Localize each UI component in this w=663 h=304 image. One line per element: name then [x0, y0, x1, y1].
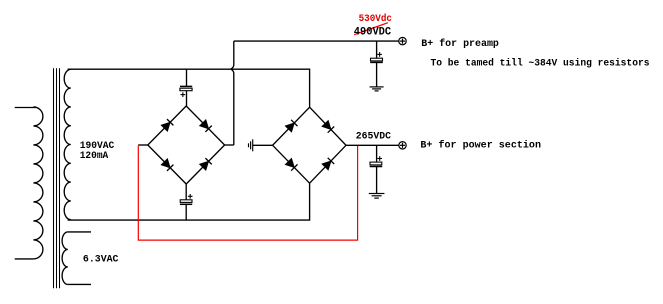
output terminal B+ preamp (circle plus) — [399, 37, 406, 44]
svg-text:530Vdc: 530Vdc — [359, 13, 392, 25]
wire: C2 to bottom rail — [185, 204, 187, 220]
ground symbol below C4 — [369, 194, 385, 199]
left bridge rectifier D1 diamond — [148, 106, 225, 184]
wire: C1 to left bridge top vertex — [186, 91, 188, 106]
transformer T1 primary winding — [15, 107, 43, 259]
wire: left bridge bottom vertex to C2 — [185, 184, 187, 200]
transformer T1 core — [54, 68, 60, 288]
transformer T1 secondary 190VAC winding — [64, 69, 71, 219]
red wire: left bridge AC node down, across, up to 265VDC rail — [138, 146, 357, 241]
wire: C3 to ground — [376, 62, 378, 87]
capacitor C1 negative plate (line) — [180, 85, 192, 87]
right bridge diode upper-left — [286, 120, 298, 132]
red strikethrough over 490VDC — [354, 23, 388, 35]
capacitor C4 plus sign — [377, 156, 382, 161]
output terminal B+ power (circle plus) — [399, 142, 406, 149]
right bridge diode upper-right — [323, 121, 335, 133]
capacitor C1 positive plate (hollow rect) — [180, 88, 192, 91]
transformer T1 secondary 6.3VAC winding — [62, 232, 91, 285]
capacitor C2 plus sign — [188, 194, 193, 199]
wire: left bridge left vertex stub — [138, 144, 148, 146]
wire: B+ preamp horizontal to output terminal — [234, 40, 399, 42]
svg-text:To be tamed till ~384V using r: To be tamed till ~384V using resistors — [431, 58, 650, 70]
wire: secondary top lead / AC top rail to right bridge top — [68, 69, 310, 107]
svg-text:6.3VAC: 6.3VAC — [83, 253, 119, 265]
right bridge diode lower-right — [323, 158, 335, 170]
capacitor C4 negative plate (line) — [370, 166, 383, 168]
svg-text:490VDC: 490VDC — [354, 26, 392, 38]
left bridge diode lower-right — [200, 158, 212, 170]
svg-text:B+ for preamp: B+ for preamp — [421, 38, 499, 50]
capacitor C2 negative plate (line) — [180, 203, 192, 205]
capacitor C4 positive plate (hollow rect) — [370, 162, 382, 165]
ground symbol below C3 — [370, 87, 384, 91]
left bridge diode upper-left — [162, 119, 174, 131]
capacitor C3 positive plate (hollow rect) — [371, 58, 383, 61]
wire: B+ preamp riser with hop over AC rail — [231, 41, 234, 145]
wire: right bridge left vertex to chassis ground — [253, 144, 273, 146]
svg-text:265VDC: 265VDC — [356, 130, 392, 142]
left bridge diode upper-right — [200, 120, 212, 132]
capacitor C3 (preamp filter) lead — [376, 41, 378, 58]
wire: left bridge right vertex stub to B+ riser — [225, 144, 234, 146]
left bridge diode lower-left — [162, 159, 174, 171]
right bridge rectifier D2 diamond — [273, 107, 346, 183]
capacitor C1 plus sign — [181, 92, 186, 97]
capacitor C1 (doubler cap, top) lead from AC rail — [186, 69, 188, 86]
right bridge diode lower-left — [286, 159, 298, 171]
wire: right bridge right vertex to B+ power terminal — [346, 144, 399, 146]
wire: C4 to ground — [376, 167, 378, 194]
svg-text:B+ for power section: B+ for power section — [420, 140, 541, 152]
wire: secondary bottom lead / bottom rail to right bridge bottom — [68, 183, 310, 220]
capacitor C2 positive plate (hollow rect) — [180, 200, 192, 203]
svg-text:120mA: 120mA — [80, 150, 109, 162]
capacitor C4 (power filter) lead — [376, 145, 378, 162]
capacitor C3 negative plate (line) — [370, 61, 383, 63]
capacitor C3 plus sign — [377, 52, 382, 57]
chassis ground (sideways) at right bridge left vertex — [249, 139, 253, 151]
